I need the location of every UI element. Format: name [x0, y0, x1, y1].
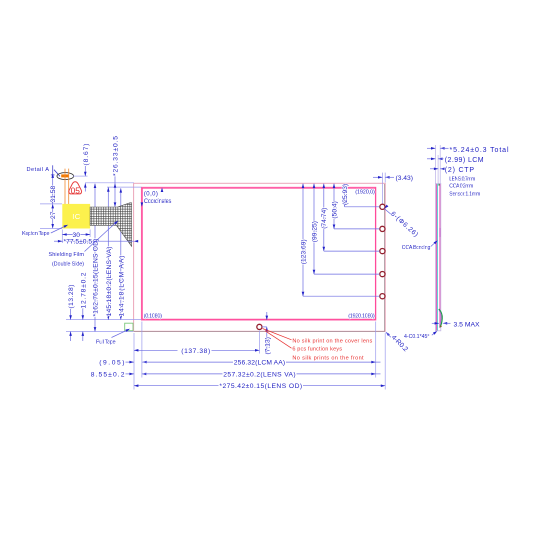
svg-text:257.32±0.2(LENS VA): 257.32±0.2(LENS VA): [223, 371, 295, 378]
node (0,0) Coordinates label: [144, 191, 172, 204]
label Pull Tape with leader: [96, 328, 131, 346]
IC (yellow box): [62, 204, 90, 229]
svg-text:145.18±0.2(LENS VA): 145.18±0.2(LENS VA): [106, 247, 113, 317]
function key hole K5: [380, 294, 385, 299]
svg-text:3.5 MAX: 3.5 MAX: [454, 321, 481, 328]
svg-text:OCA Bonding: OCA Bonding: [402, 245, 431, 251]
label Kapton Tape with leader: [22, 224, 69, 237]
svg-text:Shielding Film: Shielding Film: [49, 252, 85, 258]
label 6-(Φ6.26) with leader: [383, 205, 419, 239]
lens OD outline (outer rectangle): [134, 183, 386, 331]
extension line VA left bottom: [141, 322, 143, 378]
dimension (9.05) and 256.32(LCM AA): [99, 360, 380, 367]
svg-text:(3.43): (3.43): [396, 175, 413, 182]
dimension 3.5 MAX: [432, 321, 480, 328]
svg-text:(123.69): (123.69): [300, 239, 307, 264]
dimension (2.99) LCM: [427, 157, 484, 164]
dimension *275.42±0.15(LENS OD): [134, 383, 385, 390]
svg-text:(0,0): (0,0): [144, 191, 158, 197]
dimension (8.67): [73, 144, 90, 192]
dimension (74.74): [321, 184, 379, 252]
svg-text:(74.74): (74.74): [321, 208, 328, 229]
dimension (50.4): [331, 184, 379, 229]
extension line yellow box bottom: [40, 228, 62, 230]
svg-text:12.78±0.2: 12.78±0.2: [80, 272, 87, 308]
function key hole K4: [380, 272, 385, 277]
svg-text:*275.42±0.15(LENS OD): *275.42±0.15(LENS OD): [219, 383, 302, 390]
dimension *162.76±0.15(LENS OD): [93, 184, 100, 332]
dimension (13.28): [68, 285, 75, 342]
extension line key K6: [258, 331, 260, 354]
dimension 31.58: [50, 174, 57, 205]
svg-text:(13.28): (13.28): [68, 285, 75, 309]
side view stack body: [435, 184, 440, 331]
function key hole K3: [380, 249, 385, 254]
svg-text:144.18(LCM AA): 144.18(LCM AA): [118, 256, 125, 317]
dimension 145.18±0.2(LENS VA): [106, 187, 113, 319]
FPC mesh shape: [90, 203, 132, 247]
svg-text:(0,1080): (0,1080): [144, 313, 162, 319]
revision triangle 05: [69, 182, 82, 196]
extension line VA/AA top left: [107, 186, 142, 188]
orange wire right: [68, 169, 70, 204]
dimension (2) CTP: [430, 167, 474, 174]
extension line AA bottom left: [66, 319, 142, 321]
svg-text:(2.99) LCM: (2.99) LCM: [445, 157, 484, 164]
dimension *5.24±0.3 Total: [427, 147, 509, 154]
svg-text:(1920,1080): (1920,1080): [348, 313, 375, 319]
svg-text:Coordinates: Coordinates: [144, 199, 172, 205]
dimension (137.38): [134, 348, 259, 355]
extension line left OD bottom: [133, 333, 135, 390]
svg-text:Sensor:1.1mm: Sensor:1.1mm: [449, 191, 480, 197]
dimension 12.78±0.2: [80, 272, 87, 341]
dimension 144.18(LCM AA): [118, 188, 125, 319]
FPC hook (side view, green): [439, 309, 442, 327]
svg-text:(Double Side): (Double Side): [52, 262, 84, 268]
OCA bonding leader and label: [402, 239, 439, 250]
svg-text:Kapton Tape: Kapton Tape: [22, 231, 50, 237]
svg-text:IC: IC: [72, 212, 81, 221]
svg-text:(25.93): (25.93): [342, 184, 349, 205]
svg-text:(8.67): (8.67): [83, 144, 90, 166]
svg-text:OCA:0.2mm: OCA:0.2mm: [449, 184, 473, 190]
svg-text:(2) CTP: (2) CTP: [445, 167, 475, 174]
svg-text:27: 27: [50, 211, 57, 219]
pull tape green box: [125, 323, 133, 331]
svg-text:No silk prints on the front: No silk prints on the front: [292, 356, 364, 362]
svg-text:8.55±0.2: 8.55±0.2: [91, 371, 125, 378]
svg-text:Detail A: Detail A: [27, 167, 50, 173]
svg-text:(7.13): (7.13): [264, 337, 271, 354]
extension line VA right bottom: [375, 322, 377, 378]
svg-text:256.32(LCM AA): 256.32(LCM AA): [234, 360, 285, 367]
dimension (99.25): [311, 184, 379, 275]
label 4-R0.2 with leader: [385, 331, 409, 353]
svg-text:No silk print on the cover len: No silk print on the cover lens: [292, 338, 372, 344]
dimension 30: [62, 230, 90, 244]
coordinate axis arrows at origin: [141, 188, 164, 207]
extension line yellow box top: [40, 203, 62, 205]
svg-text:(99.25): (99.25): [311, 221, 318, 242]
red note leader 2: [265, 331, 292, 349]
red note leader 1: [263, 329, 292, 340]
svg-text:6 pcs function keys: 6 pcs function keys: [292, 347, 342, 353]
svg-text:31.58: 31.58: [50, 185, 57, 202]
dimension 8.55±0.2 and 257.32±0.2(LENS VA): [91, 371, 381, 378]
extension line right OD bottom: [384, 333, 386, 390]
svg-text:(9.05): (9.05): [99, 360, 124, 367]
svg-text:(1920,0): (1920,0): [355, 190, 375, 196]
dimension (3.43) top right: [373, 173, 413, 204]
lens VA rectangle: [141, 187, 375, 320]
function key hole K1: [380, 204, 385, 209]
label 4-C0.1*45° with leader: [404, 330, 438, 340]
dimension (123.69): [300, 184, 379, 297]
LCM AA rectangle: [142, 188, 375, 319]
orange tab rectangle: [61, 174, 69, 177]
dimension 27: [50, 204, 57, 228]
side view extension lines: [435, 145, 440, 184]
dimension *77.5±0.5: [54, 239, 138, 246]
svg-text:(137.38): (137.38): [181, 348, 210, 355]
svg-text:LENS:0.7mm: LENS:0.7mm: [449, 177, 475, 183]
function key hole K2: [380, 226, 385, 231]
extension line OD bottom left: [66, 331, 134, 333]
label Shielding Film (Double Side) with leader: [49, 220, 120, 268]
svg-text:Pull Tape: Pull Tape: [96, 340, 116, 346]
svg-text:*162.76±0.15(LENS OD): *162.76±0.15(LENS OD): [93, 239, 100, 317]
label Detail A with leader: [27, 165, 61, 176]
svg-text:*5.24±0.3 Total: *5.24±0.3 Total: [450, 147, 509, 154]
dimension (7.13) bottom key: [262, 312, 271, 355]
function key hole K6 (bottom): [257, 324, 262, 329]
extension line OD top left: [85, 182, 134, 184]
orange wire left: [64, 169, 66, 204]
svg-text:*77.5±0.5: *77.5±0.5: [64, 239, 93, 246]
dimension (25.93): [342, 184, 380, 207]
svg-text:4-C0.1*45°: 4-C0.1*45°: [404, 334, 429, 340]
svg-text:05: 05: [71, 186, 81, 196]
pull-tab ellipse (Detail A): [57, 173, 74, 180]
dimension *26.33±0.5: [113, 136, 120, 207]
svg-text:*26.33±0.5: *26.33±0.5: [113, 136, 120, 176]
svg-text:(50.4): (50.4): [331, 201, 338, 218]
